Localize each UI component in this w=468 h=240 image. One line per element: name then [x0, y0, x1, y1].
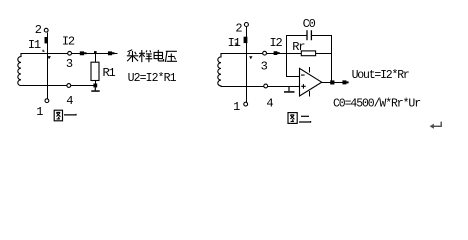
svg-text:I1: I1: [28, 38, 41, 52]
svg-text:C0=4500/W*Rr*Ur: C0=4500/W*Rr*Ur: [333, 97, 420, 110]
node 3 fig2: [263, 51, 267, 55]
wire feedback left vertical: [286, 35, 288, 77]
svg-text:1: 1: [233, 100, 240, 114]
svg-text:4: 4: [66, 94, 73, 108]
op-amp U1 triangle: [300, 68, 322, 96]
arrow on top rail fig2: [274, 51, 280, 55]
tick mark near crossing fig2: [236, 43, 238, 46]
svg-text:4: 4: [266, 97, 273, 111]
current I1 arrow mark fig1: [45, 37, 49, 43]
op-amp power tick top: [309, 67, 311, 72]
current direction triangle fig1: [47, 56, 51, 59]
terminal 2 fig1: [44, 28, 48, 32]
terminal 2 fig2: [244, 23, 248, 27]
svg-text:I1: I1: [228, 36, 241, 50]
svg-text:1: 1: [36, 105, 43, 119]
op-amp power tick bottom: [309, 91, 311, 97]
capacitor C0 plates: [307, 30, 311, 40]
ground bar fig2: [284, 91, 295, 93]
wire top rail fig2: [221, 53, 332, 55]
node 4 fig2: [264, 84, 268, 88]
resistor R1 top lead: [95, 53, 97, 63]
svg-text:Rr: Rr: [292, 40, 305, 54]
caption hanzi 采: [127, 50, 139, 62]
wire bottom rail fig1: [21, 85, 98, 87]
capacitor C0 right lead: [312, 35, 332, 37]
resistor Rr body: [301, 51, 315, 56]
caption hanzi 电: [154, 50, 164, 61]
winding L2 (transformer secondary coil): [218, 53, 221, 86]
svg-text:3: 3: [261, 59, 268, 73]
svg-text:2: 2: [35, 23, 42, 37]
caption hanzi 样: [139, 50, 152, 62]
arrow on output wire: [342, 80, 348, 84]
junction dot R1 top: [94, 51, 97, 54]
arrow on top rail 1 fig1: [80, 51, 87, 55]
resistor R1 bottom lead: [95, 80, 97, 86]
wire output fig2: [322, 82, 348, 84]
capacitor C0 left lead: [286, 35, 306, 37]
svg-text:I2: I2: [62, 35, 75, 49]
svg-text:3: 3: [66, 57, 73, 71]
svg-text:I2: I2: [270, 36, 283, 50]
wire bottom rail fig2 (to + input): [221, 86, 300, 88]
tick mark near crossing fig1: [43, 50, 45, 52]
svg-text:2: 2: [235, 22, 242, 36]
op-amp minus sign: [301, 75, 305, 76]
current I1 arrow mark fig2: [244, 37, 248, 43]
wire inverting input: [286, 76, 300, 78]
wire primary conductor vertical fig1: [47, 32, 49, 98]
ground bar fig1: [91, 90, 99, 92]
wire top rail fig1: [21, 53, 118, 55]
ground stub fig2: [288, 86, 289, 91]
wire primary conductor vertical fig2: [246, 27, 248, 102]
node 4 fig1: [67, 84, 71, 88]
caption 二 fig2: [299, 116, 311, 122]
paragraph return mark: [433, 122, 442, 127]
terminal 1 fig1: [45, 99, 49, 103]
ground stub fig1: [95, 87, 96, 90]
junction dot output/feedback: [330, 80, 334, 84]
wire feedback right vertical: [331, 35, 333, 83]
svg-text:U2=I2*R1: U2=I2*R1: [128, 72, 177, 85]
caption 图 fig2: [288, 113, 297, 124]
svg-text:R1: R1: [103, 66, 116, 80]
caption 一 fig1: [64, 114, 76, 115]
current direction triangle fig2: [249, 56, 252, 59]
caption hanzi 压: [165, 51, 177, 62]
op-amp plus sign: [301, 84, 306, 88]
caption 图 fig1: [54, 110, 62, 121]
arrow on top rail 2 fig1: [108, 51, 115, 55]
terminal 1 fig2: [244, 102, 248, 106]
node 3 fig1: [68, 51, 72, 55]
svg-text:Uout=I2*Rr: Uout=I2*Rr: [352, 69, 409, 82]
winding L1 (transformer secondary coil): [18, 53, 21, 86]
junction dot R1 bottom: [93, 84, 97, 88]
resistor R1 body: [91, 62, 99, 80]
svg-text:C0: C0: [303, 17, 316, 31]
